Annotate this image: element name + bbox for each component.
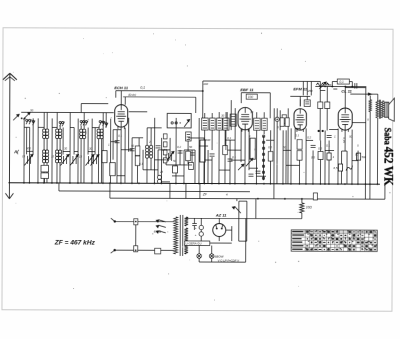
coil L11 (55, 150, 58, 153)
tube ECH11 U1 (115, 105, 128, 127)
wire (111, 141, 117, 143)
svg-text:0,2: 0,2 (177, 145, 181, 149)
wire (200, 218, 202, 225)
wire (69, 113, 71, 183)
band switch contact S4 (59, 121, 61, 123)
wire bus link x186 (185, 183, 187, 198)
capacitor C12 (156, 145, 161, 147)
wire (158, 149, 170, 151)
wire (121, 149, 132, 151)
wire (87, 128, 89, 155)
wire (97, 139, 99, 183)
capacitor C10 (130, 148, 135, 150)
svg-text:ECH 11: ECH 11 (114, 85, 129, 90)
wire (256, 175, 265, 177)
svg-text:50: 50 (349, 135, 353, 139)
mains switch arrow (235, 207, 241, 214)
tuning capacitor CV2 (62, 156, 64, 164)
wire B+ feed (255, 199, 257, 219)
volume pot arrow (246, 158, 253, 166)
wire return bus 1 (59, 190, 250, 193)
wire (138, 138, 140, 147)
antenna coupling arrows (13, 114, 19, 120)
wire osc line 2 (123, 96, 196, 98)
svg-text:0,1: 0,1 (232, 155, 236, 159)
wire (112, 130, 114, 160)
wire (155, 159, 166, 161)
wire (180, 164, 192, 166)
ground (8, 183, 10, 198)
wire (337, 129, 339, 184)
wire (63, 150, 70, 152)
wire bus link x59 (58, 183, 60, 191)
coil L6 (83, 129, 86, 132)
IF can T1 coil c (217, 118, 223, 130)
scan specks (296, 211, 299, 214)
wire (28, 127, 30, 182)
wire (210, 242, 232, 244)
wire (325, 149, 334, 151)
coil L2 (46, 129, 49, 132)
stacked comp chain (163, 134, 167, 139)
resistor R18 tall (250, 138, 255, 159)
wire (80, 126, 82, 129)
electrolytic C25 (199, 225, 203, 229)
svg-text:V C-LP F=CDF V: V C-LP F=CDF V (218, 259, 241, 263)
wire (269, 161, 271, 183)
wire (205, 159, 212, 161)
speaker LS (385, 102, 389, 117)
resistor R19 (338, 164, 342, 171)
wire (352, 122, 365, 124)
wire (102, 113, 104, 183)
coil L7 (97, 129, 100, 132)
antenna A (3, 73, 10, 80)
wire (344, 87, 346, 109)
svg-text:25: 25 (159, 170, 164, 174)
wire (157, 150, 159, 176)
band switch contact S11 (105, 123, 107, 125)
svg-text:0,5: 0,5 (311, 155, 315, 159)
svg-text:+: + (195, 233, 197, 237)
wire (229, 140, 231, 183)
wire (305, 128, 307, 183)
wire (98, 126, 100, 129)
capacitor C16 (164, 158, 169, 160)
resistor R10 (318, 151, 323, 159)
wire (136, 166, 138, 183)
wire (70, 127, 74, 129)
coil L14 osc (149, 145, 152, 148)
pot arrow 2 (238, 164, 244, 170)
wire (203, 130, 205, 183)
svg-text:15: 15 (51, 154, 55, 158)
wire (43, 163, 45, 183)
wire (211, 130, 213, 150)
svg-text:30: 30 (250, 110, 254, 114)
wire top bus tuner (21, 111, 113, 113)
tuning capacitor CV3 (72, 156, 74, 164)
svg-text:0,1: 0,1 (140, 86, 145, 90)
svg-text:0,1: 0,1 (227, 136, 231, 140)
dial lamp LP2 (209, 254, 214, 259)
wire (312, 150, 314, 183)
wire (184, 149, 195, 151)
transformer secondary mid (184, 228, 188, 242)
wire (183, 150, 185, 183)
wire (188, 137, 204, 139)
wire (150, 128, 152, 145)
capacitor C22 (327, 134, 332, 136)
svg-text:452 WK: 452 WK (381, 147, 395, 186)
IF can T1 coil d (223, 118, 229, 130)
wire (191, 150, 193, 168)
wire (77, 119, 79, 183)
wire fb loop (241, 92, 270, 94)
svg-text:250: 250 (307, 89, 313, 93)
svg-text:100: 100 (248, 95, 254, 99)
bandfilter box (167, 113, 191, 128)
voltage selector (159, 220, 166, 222)
wire (345, 87, 366, 89)
wire (328, 140, 330, 183)
wire (226, 112, 228, 130)
svg-text:5000: 5000 (204, 138, 211, 142)
wire (113, 129, 121, 131)
wire (46, 139, 48, 150)
res box left a (280, 118, 284, 127)
wire (100, 139, 102, 183)
coil L5 (80, 129, 83, 132)
wire (364, 88, 366, 199)
svg-text:50: 50 (355, 153, 359, 157)
svg-text:30: 30 (221, 114, 225, 118)
wire (146, 158, 148, 183)
wire bus link x274 (273, 184, 275, 199)
svg-text:0,2: 0,2 (307, 135, 311, 139)
svg-text:0,1: 0,1 (139, 162, 143, 166)
wire (128, 118, 130, 152)
wire (270, 130, 272, 151)
wire (236, 199, 238, 201)
svg-text:Saba: Saba (383, 128, 393, 145)
output transformer primary (376, 101, 379, 118)
svg-text:0,1: 0,1 (118, 134, 122, 138)
wire (371, 93, 377, 95)
wire (377, 97, 379, 101)
wire (129, 111, 147, 113)
band switch contact S1 (26, 119, 28, 121)
wire (357, 151, 359, 184)
wire (179, 150, 181, 165)
wire (351, 130, 353, 184)
wire (319, 86, 321, 101)
wire (225, 139, 235, 141)
comp box 2 (186, 132, 192, 141)
resistor R7 (268, 152, 273, 162)
electrolytic C26 (199, 232, 203, 236)
coil L13 osc (145, 145, 148, 148)
wire (198, 258, 200, 262)
IF can T1 coil a (202, 118, 209, 130)
wire (43, 112, 45, 128)
wire (240, 129, 242, 162)
wire (38, 126, 44, 128)
top right detail dots (331, 86, 333, 88)
wire (203, 138, 205, 183)
svg-text:U-GERA-DU: U-GERA-DU (186, 242, 202, 246)
wire (120, 91, 122, 105)
wire (299, 99, 301, 106)
band switch contact S6 (80, 121, 82, 123)
wire (248, 129, 250, 170)
wire bus link x110 (109, 183, 111, 198)
cap 100 box (246, 94, 257, 99)
coil L1 (43, 129, 46, 132)
wire (52, 126, 57, 128)
wire (202, 81, 204, 118)
wire (74, 151, 78, 153)
wire (94, 128, 96, 155)
wire (218, 237, 220, 241)
wire (46, 163, 48, 183)
wire (105, 113, 107, 128)
tuning capacitor CV5 (92, 156, 94, 164)
svg-text:15: 15 (79, 155, 83, 159)
wire (244, 129, 246, 184)
transformer primary (174, 217, 178, 254)
capacitor C27 (192, 222, 196, 224)
wire (256, 112, 258, 118)
trimmer box (41, 165, 49, 172)
svg-text:0,1: 0,1 (295, 133, 299, 137)
wire (218, 112, 220, 118)
wire (147, 127, 161, 129)
IF can T2 coil a (254, 118, 261, 130)
wire (227, 149, 241, 151)
wire (83, 139, 85, 183)
transformer core (179, 215, 181, 256)
wire (198, 118, 200, 183)
svg-text:4 5 6: 4 5 6 (154, 230, 161, 234)
wire (143, 169, 158, 171)
potentiometer P1 (316, 83, 329, 87)
wire (263, 112, 265, 118)
resistor R14 small (313, 193, 317, 200)
wire bus link x200 (199, 183, 201, 198)
wire (207, 150, 209, 183)
capacitor C18 (228, 158, 233, 160)
svg-text:ZF = 467 kHz: ZF = 467 kHz (54, 239, 96, 246)
wire (80, 139, 82, 183)
mains line top (115, 220, 174, 222)
svg-text:30: 30 (89, 147, 93, 151)
svg-text:0,1: 0,1 (339, 80, 344, 84)
cathode network box (340, 151, 342, 170)
svg-text:0,5: 0,5 (268, 145, 272, 149)
tuning capacitor CV4 (87, 156, 89, 164)
wire (24, 126, 29, 128)
wire (187, 138, 189, 164)
wire (88, 151, 95, 153)
wire (37, 118, 39, 182)
wire (263, 130, 265, 134)
wire (73, 128, 75, 155)
wire (319, 81, 321, 86)
wire (306, 139, 313, 141)
wire (266, 139, 274, 141)
svg-text:EFM 11: EFM 11 (293, 86, 308, 91)
label Saba 452 WK (381, 128, 395, 186)
resistor R3 (110, 163, 115, 176)
wire HV (186, 217, 301, 219)
coil can extra (230, 114, 236, 126)
rectifier AZ11 V1 (213, 224, 226, 237)
wire (332, 81, 337, 83)
svg-text:100: 100 (162, 148, 167, 152)
transformer secondary heater (184, 243, 188, 254)
dial lamp LP1 (197, 254, 202, 259)
svg-text:A(: A( (13, 149, 19, 154)
coil L8 (100, 129, 103, 132)
svg-text:50: 50 (30, 108, 34, 112)
capacitor C17 (210, 153, 215, 155)
tube CL11 U4 (338, 108, 352, 130)
svg-text:0,05: 0,05 (342, 138, 346, 144)
trimmer box 2 (41, 173, 49, 179)
wire top right (315, 85, 366, 87)
wire (91, 119, 93, 183)
svg-text:(Erde): (Erde) (128, 93, 136, 97)
field coil choke (369, 100, 372, 112)
resistor R12 (327, 153, 331, 160)
svg-text:EBF 11: EBF 11 (240, 87, 254, 92)
resistor R5 (189, 162, 194, 169)
wire (27, 150, 33, 152)
wire (153, 118, 155, 183)
svg-text:0,3: 0,3 (318, 146, 322, 150)
wire (211, 113, 213, 118)
coil L12 (58, 150, 61, 153)
wire (295, 127, 300, 129)
wire (199, 145, 208, 147)
svg-text:50: 50 (189, 145, 193, 149)
svg-text:0,1: 0,1 (326, 143, 330, 147)
electrolytic C15 (157, 175, 161, 179)
wire osc line 1 (116, 90, 203, 92)
wire (273, 108, 275, 130)
wire (117, 175, 125, 177)
wire (175, 118, 177, 183)
wire (224, 128, 226, 145)
wire (51, 118, 53, 182)
speaker transformer core (378, 100, 380, 119)
svg-text:50: 50 (283, 145, 287, 149)
wire (369, 112, 371, 199)
wire (142, 150, 144, 170)
selector box (155, 248, 161, 254)
wire (302, 81, 304, 95)
wire (56, 139, 58, 150)
junction blobs (318, 130, 320, 132)
tube EFM11 U3 (294, 109, 306, 130)
switch arrow in box (184, 119, 190, 127)
wire (204, 113, 206, 118)
wire (46, 112, 48, 128)
det box a (318, 102, 323, 109)
wire (120, 128, 122, 183)
box above EFM11 (304, 100, 310, 107)
mains plug top (114, 220, 116, 222)
capacitor C14 (190, 152, 195, 154)
resistor R20 (102, 151, 107, 163)
squiggle 4 (346, 166, 353, 171)
junction (257, 198, 259, 200)
tuning capacitor CV1 (26, 156, 28, 164)
band switch contact S10 (102, 121, 104, 123)
wire (195, 97, 197, 113)
wire (320, 140, 322, 151)
wire top feed (203, 80, 320, 82)
output transformer secondary (381, 101, 384, 118)
coil L4 (59, 129, 62, 132)
svg-text:+: + (195, 226, 197, 230)
svg-text:100: 100 (203, 82, 208, 86)
wire (166, 164, 180, 166)
wire bus link x170 (169, 183, 171, 198)
coil L9 (42, 150, 45, 153)
diode point contact (275, 117, 279, 121)
svg-text:AZ 11: AZ 11 (215, 213, 227, 218)
fuse switch (135, 220, 137, 251)
wire (294, 128, 296, 139)
svg-text:2: 2 (253, 147, 256, 151)
resistor R11 0,1 (337, 79, 349, 84)
wire spk feed (350, 93, 371, 95)
PSU label box (185, 241, 210, 246)
band switch contact S5 (62, 121, 64, 123)
coil L10 (45, 150, 48, 153)
wire (165, 150, 167, 165)
wire return bus 2 (110, 198, 385, 199)
arrow (368, 93, 371, 95)
wire (276, 108, 278, 117)
wire (286, 164, 299, 166)
resistor R1 (135, 146, 140, 156)
wire (224, 155, 226, 183)
svg-text:30: 30 (64, 146, 68, 150)
wire (194, 150, 196, 183)
res box left b (285, 118, 289, 127)
capacitor C21 (311, 144, 316, 146)
choke resistor R15 (300, 203, 304, 213)
svg-text:500: 500 (26, 146, 31, 150)
wire (340, 171, 342, 184)
resistor R2 (135, 156, 140, 166)
wire (59, 163, 61, 183)
svg-text:15: 15 (22, 154, 26, 158)
wire (43, 178, 45, 182)
IF can T2 coil b (262, 118, 268, 130)
wire (198, 245, 200, 253)
resistor R16 (282, 115, 286, 124)
wire (231, 226, 233, 241)
wire (218, 130, 220, 183)
coil L3 (56, 129, 59, 132)
svg-text:50: 50 (131, 144, 135, 148)
wire (146, 128, 148, 145)
capacitor C23 (354, 83, 356, 88)
